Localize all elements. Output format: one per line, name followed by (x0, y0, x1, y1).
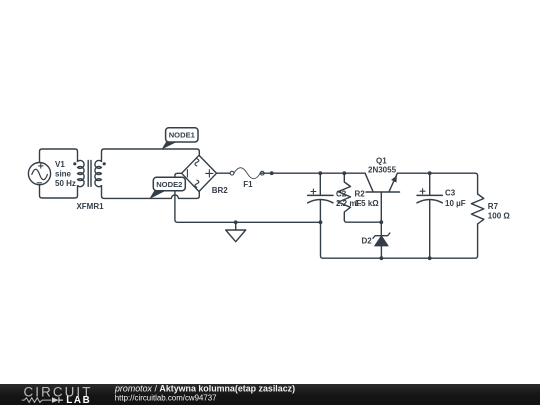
svg-text:R2: R2 (355, 189, 366, 198)
svg-text:D2: D2 (362, 237, 373, 246)
junction R2 top (342, 171, 346, 175)
svg-text:C3: C3 (445, 189, 456, 198)
wire emitter rail to R7 top (397, 173, 477, 194)
svg-text:http://circuitlab.com/cw94737: http://circuitlab.com/cw94737 (115, 393, 217, 402)
footer bar (0, 384, 540, 405)
resistor R7 (471, 194, 510, 224)
svg-text:promotox / Aktywna kolumna(eta: promotox / Aktywna kolumna(etap zasilacz… (114, 383, 295, 393)
transformer XFMR1 (73, 160, 106, 211)
svg-text:NODE2: NODE2 (156, 180, 182, 189)
resistor R2 (338, 173, 379, 220)
wire XFMR1 secondary top to bridge (102, 149, 200, 161)
transistor Q1 (365, 156, 399, 222)
phase dot secondary (103, 162, 106, 165)
voltage source V1 (28, 160, 76, 188)
junction C3 bottom (428, 256, 432, 260)
fuse F1 (230, 168, 260, 189)
svg-text:BR2: BR2 (212, 186, 229, 195)
junction C3 top (428, 171, 432, 175)
node label NODE1 (162, 128, 199, 150)
primary winding (78, 160, 85, 186)
core (88, 160, 91, 186)
secondary winding (95, 160, 102, 186)
junction C2 top (318, 171, 322, 175)
wire bridge right corner to fuse (217, 172, 231, 174)
wire bridge left corner down to ground rail (175, 173, 321, 222)
bottom rail with C2 drop and R7 bottom lead (321, 222, 478, 258)
phase dot primary (73, 162, 76, 165)
svg-text:XFMR1: XFMR1 (76, 202, 104, 211)
svg-text:R7: R7 (488, 202, 499, 211)
svg-text:NODE1: NODE1 (169, 131, 196, 140)
ground (226, 220, 246, 241)
svg-text:V1: V1 (55, 160, 65, 169)
wire XFMR1 secondary bottom to bridge (with hop) (102, 186, 200, 199)
wire V1 top to XFMR1 primary (40, 149, 78, 162)
junction C2 bottom / ground rail (319, 220, 323, 224)
capacitor C2 (308, 173, 362, 222)
svg-text:50 Hz: 50 Hz (55, 179, 76, 188)
svg-text:F1: F1 (243, 180, 253, 189)
svg-text:LAB: LAB (66, 395, 91, 405)
svg-text:Q1: Q1 (376, 156, 387, 165)
bridge rectifier BR2 (182, 155, 229, 195)
svg-text:1.5 kΩ: 1.5 kΩ (355, 199, 380, 208)
junction after fuse (270, 171, 274, 175)
wire R2 bottom to Q1 base junction (344, 220, 381, 223)
CircuitLab logo (22, 384, 93, 405)
zener diode D2 (362, 222, 390, 258)
svg-text:10 µF: 10 µF (445, 199, 466, 208)
node label NODE2 (149, 177, 185, 199)
svg-text:sine: sine (55, 170, 72, 179)
junction Q1 base / R2 / D2 (379, 220, 383, 224)
junction D2 bottom (380, 256, 384, 260)
fuse right terminal circle (260, 171, 264, 175)
wire V1 bottom to XFMR1 primary (40, 185, 78, 198)
svg-text:2N3055: 2N3055 (368, 165, 397, 174)
svg-text:100 Ω: 100 Ω (488, 212, 511, 221)
wire fuse to Q1 collector rail (260, 172, 365, 174)
capacitor C3 (417, 173, 466, 258)
